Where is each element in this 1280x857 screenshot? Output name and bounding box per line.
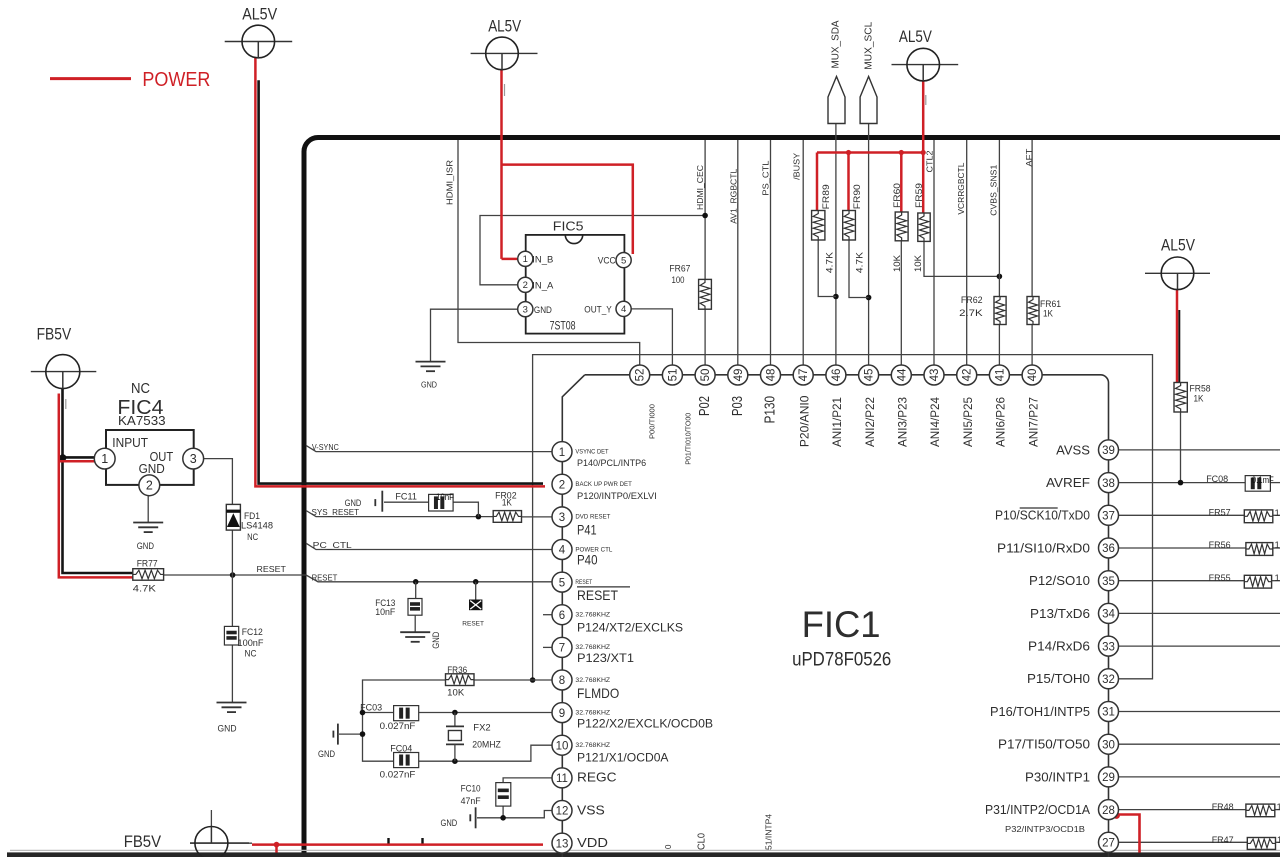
FIC1 pin 4 <box>552 540 613 568</box>
svg-text:PS_CTL: PS_CTL <box>761 160 771 195</box>
FIC1 pin 28 <box>985 800 1119 820</box>
FIC1 pin 31 <box>990 702 1119 722</box>
svg-text:P03: P03 <box>729 396 746 416</box>
power wire red FB5V VDD rail <box>252 845 543 853</box>
svg-text:FC08: FC08 <box>1206 474 1228 485</box>
svg-text:FC10: FC10 <box>461 783 481 794</box>
junction FX2 bottom <box>452 758 458 764</box>
resistor FR60 10K <box>892 183 908 272</box>
svg-text:FR55: FR55 <box>1209 573 1231 584</box>
FIC1 pin 47 <box>793 365 813 385</box>
wire FIC4 pin2 to GND <box>147 496 149 523</box>
svg-text:52: 52 <box>635 369 647 382</box>
net label VCRRGBCTL <box>956 162 966 214</box>
net label AV1_RGBCTL <box>729 169 739 224</box>
svg-text:P01/TI010/TO00: P01/TI010/TO00 <box>683 413 692 465</box>
svg-text:VSS: VSS <box>577 802 605 817</box>
wire pin 28 to FR48 <box>1119 809 1280 811</box>
svg-text:FR36: FR36 <box>447 665 467 676</box>
ground FC12 <box>217 703 247 735</box>
resistor FR90 4.7K <box>843 184 865 273</box>
wire VCRRGBCTL pin 42 <box>966 140 968 365</box>
net label HDMI_ISR <box>445 160 455 205</box>
svg-text:FR47: FR47 <box>1212 835 1234 846</box>
FIC1 pin 44 <box>891 365 911 385</box>
svg-text:FC04: FC04 <box>390 743 412 754</box>
svg-text:P120/INTP0/EXLVI: P120/INTP0/EXLVI <box>577 491 657 502</box>
svg-text:SYS_RESET: SYS_RESET <box>312 507 360 517</box>
svg-text:10nF: 10nF <box>436 492 454 502</box>
svg-text:P130: P130 <box>762 396 779 424</box>
svg-text:FR59: FR59 <box>914 183 924 208</box>
FIC1 pin 11 <box>552 768 617 788</box>
wire FR60 to pin 44 <box>900 241 902 365</box>
wire FC12 to GND <box>231 645 233 703</box>
power symbol FB5V #1 <box>31 325 97 388</box>
FIC4 pin 2 <box>139 475 160 496</box>
FIC1 pin 8 <box>552 670 619 701</box>
wire pin 7 stub <box>543 646 552 648</box>
resistor FR57 <box>1209 507 1280 522</box>
svg-text:32.768KHZ: 32.768KHZ <box>575 709 610 716</box>
FIC1 pin 51 <box>662 365 682 385</box>
svg-text:AFT: AFT <box>1024 149 1034 167</box>
svg-text:47: 47 <box>798 369 810 382</box>
wire PS_CTL pin 48 <box>770 140 772 365</box>
resistor FR62 2.7K <box>959 295 1006 325</box>
wire MUX_SCL to pin 45 <box>868 124 870 366</box>
svg-text:37: 37 <box>1102 511 1115 523</box>
wire RESET from FR77 to border <box>164 574 306 576</box>
resistor FR36 10K <box>446 665 475 699</box>
svg-text:FR67: FR67 <box>669 263 690 274</box>
net label RESET at border <box>312 572 338 582</box>
ground FC13 <box>400 582 441 649</box>
legend POWER <box>50 68 210 91</box>
svg-text:1K: 1K <box>1043 308 1054 319</box>
wire pin 31 <box>1119 711 1280 713</box>
wire GND tap crystal <box>339 733 363 735</box>
svg-text:P15/TOH0: P15/TOH0 <box>1027 672 1090 686</box>
ground crystal bracket <box>318 724 338 759</box>
net label RESET left <box>257 564 286 574</box>
wire CTL2 pin 43 <box>933 140 935 365</box>
svg-text:CL0: CL0 <box>697 833 708 850</box>
svg-text:P123/XT1: P123/XT1 <box>577 651 634 665</box>
svg-text:AV1_RGBCTL: AV1_RGBCTL <box>729 169 739 224</box>
wire FC11 to SYS_RESET <box>384 502 478 516</box>
svg-text:MUX_SCL: MUX_SCL <box>864 21 875 69</box>
svg-text:32.768KHZ: 32.768KHZ <box>575 677 610 684</box>
pin label ANI1/P21 <box>830 397 844 447</box>
svg-text:P13/TxD6: P13/TxD6 <box>1030 607 1090 621</box>
svg-text:32: 32 <box>1102 674 1115 686</box>
svg-text:REGC: REGC <box>577 769 617 784</box>
ground FC10 bracket <box>441 807 476 828</box>
svg-text:39: 39 <box>1102 445 1115 457</box>
junction reset testpoint tap <box>473 579 479 585</box>
svg-text:uPD78F0526: uPD78F0526 <box>792 649 891 670</box>
wire HDMI_CEC vertical / FR67 to pin 50 <box>704 140 706 365</box>
pin label P01/TI010/TO00 <box>683 413 692 465</box>
FIC1 pin 46 <box>826 365 846 385</box>
FIC1 pin 52 <box>630 365 650 385</box>
pin label ANI5/P25 <box>961 397 975 447</box>
FIC1 pin 5 <box>552 572 630 603</box>
svg-text:FR90: FR90 <box>852 184 862 209</box>
junction FB5V <box>59 454 66 461</box>
svg-text:P14/RxD6: P14/RxD6 <box>1028 640 1090 654</box>
FIC1 pin 1 <box>552 442 646 469</box>
svg-text:1: 1 <box>523 254 528 265</box>
svg-text:30: 30 <box>1102 739 1115 751</box>
junction CVBS_SNS1 <box>997 274 1003 280</box>
FIC1 pin 13 <box>552 833 608 853</box>
FIC5 pin 1 IN_B <box>518 251 554 266</box>
svg-text:43: 43 <box>929 369 941 382</box>
wire FC04 row to pin 10 <box>419 745 552 761</box>
svg-text:PC_CTL: PC_CTL <box>313 540 352 550</box>
wire stub tick 1 <box>387 838 389 846</box>
svg-text:POWER: POWER <box>142 68 210 91</box>
svg-text:3: 3 <box>559 512 565 524</box>
svg-text:ANI1/P21: ANI1/P21 <box>830 397 844 447</box>
svg-text:45: 45 <box>864 369 876 382</box>
svg-text:ANI5/P25: ANI5/P25 <box>961 397 975 447</box>
svg-text:12: 12 <box>556 806 569 818</box>
FIC1 pin 12 <box>552 801 605 821</box>
svg-text:VCC: VCC <box>598 256 616 267</box>
diode FD1 LS4148 <box>226 504 273 543</box>
svg-text:/BUSY: /BUSY <box>792 153 802 180</box>
svg-text:HDMI_CEC: HDMI_CEC <box>695 165 705 210</box>
svg-text:AL5V: AL5V <box>1161 237 1195 255</box>
svg-text:ANI4/P24: ANI4/P24 <box>928 397 942 447</box>
ground FC11 bracket <box>345 491 383 512</box>
capacitor FC03 0.027nF <box>360 702 419 732</box>
svg-text:GND: GND <box>345 498 362 508</box>
svg-text:ANI2/P22: ANI2/P22 <box>863 397 877 447</box>
wire PC_CTL to pin 4 <box>306 543 552 549</box>
power wire red AL5V#3 / pullup bus <box>817 81 923 213</box>
svg-text:100: 100 <box>672 275 685 286</box>
svg-text:RESET: RESET <box>577 587 618 603</box>
FIC1 pin 45 <box>859 365 879 385</box>
wire FD1 to FC12 <box>231 530 233 626</box>
power wire red FB5V#1 <box>59 394 133 578</box>
FIC5 pin 5 VCC <box>598 253 632 268</box>
wire FR36 left loop <box>363 680 446 761</box>
svg-text:1: 1 <box>1275 573 1280 584</box>
svg-text:10K: 10K <box>913 255 923 272</box>
power wire black FB5V to FIC4/FR77 <box>63 389 134 573</box>
overline SCK10 <box>1020 507 1058 509</box>
svg-text:GND: GND <box>441 818 458 828</box>
FIC1 pin 3 <box>552 507 610 538</box>
svg-text:AL5V: AL5V <box>899 28 932 46</box>
svg-text:32.768KHZ: 32.768KHZ <box>575 644 610 651</box>
capacitor FC12 100nF <box>224 626 263 659</box>
junction FR89/pin46 <box>833 294 839 300</box>
pin label ANI3/P23 <box>896 397 910 447</box>
wire AV1_RGBCTL pin 49 <box>737 140 739 365</box>
wire MUX_SDA to pin 46 <box>835 124 837 366</box>
svg-text:3: 3 <box>523 304 528 315</box>
svg-text:13: 13 <box>556 838 569 850</box>
wire FIC5 GND pin3 <box>431 309 519 361</box>
testpoint RESET switch <box>462 582 484 628</box>
svg-text:42: 42 <box>962 369 974 382</box>
FIC1 pin 39 <box>1056 440 1118 460</box>
wire SYS_RESET to FR02 <box>306 511 493 517</box>
svg-text:VSYNC DET: VSYNC DET <box>575 448 608 455</box>
svg-text:KA7533: KA7533 <box>118 414 166 428</box>
IC FIC1 body outline <box>562 375 1108 857</box>
resistor FR47 <box>1212 835 1280 849</box>
FIC4 pin 3 <box>183 448 204 469</box>
wire FLMDO net pin 8 to pin 32 <box>533 355 1153 680</box>
svg-text:LS4148: LS4148 <box>241 521 273 532</box>
wire stub tick 2 <box>421 838 423 846</box>
svg-text:P20/ANI0: P20/ANI0 <box>797 395 811 447</box>
svg-text:FC11: FC11 <box>395 491 417 502</box>
svg-text:P140/PCL/INTP6: P140/PCL/INTP6 <box>577 458 646 469</box>
svg-text:IN_A: IN_A <box>532 281 554 292</box>
svg-text:4.7K: 4.7K <box>855 252 865 273</box>
FIC5 pin 4 OUT_Y <box>584 301 631 316</box>
wire AFT / FR61 pin 40 <box>1031 140 1033 365</box>
wire FIC5 OUT_Y to pin 51 <box>631 309 672 365</box>
FIC1 pin 49 <box>728 365 748 385</box>
svg-text:P16/TOH1/INTP5: P16/TOH1/INTP5 <box>990 705 1090 719</box>
svg-text:10: 10 <box>556 740 569 752</box>
FIC1 pin 29 <box>1025 767 1119 787</box>
junction FR90/pin45 <box>866 295 872 301</box>
resistor FR89 4.7K <box>812 184 835 273</box>
wire pin 29 <box>1119 776 1280 778</box>
svg-text:P124/XT2/EXCLKS: P124/XT2/EXCLKS <box>577 620 683 634</box>
crystal FX2 20MHZ <box>446 713 501 762</box>
wire pin 27 to FR47 <box>1119 841 1280 843</box>
resistor FR77 4.7K <box>133 559 164 595</box>
FIC1 pin 40 <box>1022 365 1042 385</box>
power wire red AL5V#4 to FR58 <box>1176 289 1179 383</box>
pin label P00/TI000 <box>648 404 657 439</box>
svg-text:1: 1 <box>101 452 108 466</box>
svg-text:4.7K: 4.7K <box>825 252 835 273</box>
FIC5 pin 2 IN_A <box>518 277 554 292</box>
svg-text:34: 34 <box>1102 609 1115 621</box>
FIC1 block boundary border <box>304 138 1280 857</box>
wire tick AL5V#2 <box>504 84 506 96</box>
svg-text:AL5V: AL5V <box>488 18 521 36</box>
wire pin 34 <box>1119 612 1280 614</box>
svg-text:GND: GND <box>318 749 335 759</box>
svg-text:AVREF: AVREF <box>1046 476 1090 490</box>
svg-text:FR57: FR57 <box>1209 507 1231 518</box>
junction FD1/RESET <box>230 572 236 578</box>
FIC1 pin 36 <box>997 538 1119 558</box>
svg-text:1K: 1K <box>502 498 513 509</box>
svg-text:38: 38 <box>1102 478 1115 490</box>
wire FR59 bottom to CVBS_SNS1 <box>924 241 999 276</box>
pin label SCL0 partial <box>697 833 708 850</box>
junction FC03 left <box>360 710 366 716</box>
junction red pin 28 <box>1113 812 1120 819</box>
pin label partial 0 <box>664 844 673 849</box>
capacitor FC13 10nF <box>375 598 422 618</box>
wire V-SYNC to pin 1 <box>306 445 552 451</box>
pin label P20/ANI0 <box>797 395 811 447</box>
svg-text:4: 4 <box>621 304 626 315</box>
svg-text:P17/TI50/TO50: P17/TI50/TO50 <box>998 738 1090 752</box>
FIC1 pin 43 <box>924 365 944 385</box>
power symbol AL5V #1 <box>225 6 293 58</box>
power wire black AL5V to pin 2 <box>259 80 543 483</box>
svg-text:32.768KHZ: 32.768KHZ <box>575 742 610 749</box>
svg-text:1: 1 <box>1277 802 1280 813</box>
wire AVREF pin 38 to FC08 <box>1119 482 1280 484</box>
resistor FR56 <box>1209 540 1280 555</box>
svg-text:P00/TI000: P00/TI000 <box>648 404 657 439</box>
svg-text:6: 6 <box>559 610 565 622</box>
capacitor FC08 0.1mF <box>1206 474 1274 491</box>
wire tick AL5V#3 <box>925 95 927 105</box>
junction HDMI_CEC <box>702 213 708 219</box>
svg-text:FIC5: FIC5 <box>553 219 584 234</box>
svg-text:1: 1 <box>1275 540 1280 551</box>
svg-text:2: 2 <box>559 479 565 491</box>
pin label ANI2/P22 <box>863 397 877 447</box>
svg-text:5: 5 <box>559 577 565 589</box>
svg-text:0.1mF: 0.1mF <box>1252 475 1274 485</box>
pin label ANI4/P24 <box>928 397 942 447</box>
svg-text:NC: NC <box>247 532 258 543</box>
wire pin 33 <box>1119 645 1280 647</box>
svg-text:FR56: FR56 <box>1209 540 1231 551</box>
wire pin 36 to FR56 <box>1119 547 1280 549</box>
power wire red AL5V#2 to FIC5 VCC <box>502 70 633 259</box>
ground FIC4 pin2 <box>133 523 163 552</box>
power symbol FB5V #2 bottom <box>124 827 249 857</box>
wire FIC4 pin3 to FD1 <box>204 459 233 505</box>
svg-text:P02: P02 <box>696 396 713 416</box>
FIC1 pin 27 <box>1099 832 1119 852</box>
wire FR89 bottom <box>818 240 836 297</box>
svg-text:49: 49 <box>733 369 745 382</box>
wire FR02 to pin 3 <box>522 516 553 518</box>
power symbol AL5V #4 <box>1145 237 1210 290</box>
svg-text:INPUT: INPUT <box>112 435 148 450</box>
FIC1 pin 10 <box>552 735 669 765</box>
svg-text:CTL2: CTL2 <box>925 150 935 172</box>
wire HDMI_ISR to pin 52 <box>458 140 640 365</box>
svg-text:P121/X1/OCD0A: P121/X1/OCD0A <box>577 751 669 765</box>
svg-text:VCRRGBCTL: VCRRGBCTL <box>956 162 966 214</box>
IC FIC4 KA7533 body <box>106 380 194 485</box>
svg-text:VDD: VDD <box>577 835 608 850</box>
svg-text:10K: 10K <box>447 687 465 698</box>
svg-text:P31/INTP2/OCD1A: P31/INTP2/OCD1A <box>985 803 1091 817</box>
port arrow MUX_SCL <box>860 21 877 123</box>
pin label P130 <box>762 396 779 424</box>
resistor FR67 100 <box>669 263 711 309</box>
wire FR58 to AVREF <box>1180 412 1182 483</box>
junction red bus AL5V <box>921 150 926 155</box>
wire pin 35 to FR55 <box>1119 580 1280 582</box>
svg-text:MUX_SDA: MUX_SDA <box>831 20 842 68</box>
svg-text:31: 31 <box>1102 707 1115 719</box>
FIC5 pin 3 GND <box>518 302 552 317</box>
FIC1 pin 2 <box>552 474 657 502</box>
svg-text:RESET: RESET <box>462 620 484 627</box>
junction FX2 top <box>452 710 458 716</box>
resistor FR61 1K <box>1027 297 1061 325</box>
svg-text:DVD RESET: DVD RESET <box>575 514 610 521</box>
FIC1 pin 50 <box>695 365 715 385</box>
svg-text:29: 29 <box>1102 772 1115 784</box>
svg-text:FR62: FR62 <box>961 295 983 306</box>
FIC1 pin 35 <box>1029 571 1119 591</box>
svg-text:8: 8 <box>559 675 565 687</box>
wire AVSS pin 39 <box>1119 449 1280 451</box>
FIC1 pin 34 <box>1030 603 1119 623</box>
svg-text:FR89: FR89 <box>821 184 831 209</box>
junction red bus FR90 <box>846 150 851 155</box>
svg-text:GND: GND <box>534 305 552 316</box>
svg-text:7ST08: 7ST08 <box>550 321 576 333</box>
svg-text:2.7K: 2.7K <box>959 308 983 319</box>
svg-text:BACK UP PWR DET: BACK UP PWR DET <box>575 481 631 488</box>
junction FC10 gnd <box>500 815 506 821</box>
capacitor FC11 10nF <box>395 491 454 511</box>
svg-text:V-SYNC: V-SYNC <box>312 442 339 452</box>
FIC1 pin 9 <box>552 703 713 731</box>
svg-text:NC: NC <box>131 380 150 397</box>
svg-text:10nF: 10nF <box>375 607 395 618</box>
net label AFT <box>1024 149 1034 167</box>
FIC1 pin 6 <box>552 605 683 635</box>
svg-text:2: 2 <box>523 280 528 291</box>
svg-text:11: 11 <box>556 773 568 785</box>
resistor FR48 <box>1212 802 1280 817</box>
svg-text:P30/INTP1: P30/INTP1 <box>1025 770 1090 784</box>
wire pin 30 <box>1119 743 1280 745</box>
svg-text:GND: GND <box>431 631 441 648</box>
wire CVBS_SNS1 / FR62 pin 41 <box>998 140 1000 365</box>
svg-text:28: 28 <box>1102 805 1115 817</box>
svg-text:GND: GND <box>421 380 437 390</box>
svg-text:FC12: FC12 <box>242 627 263 638</box>
wire tick FB5V <box>65 399 67 409</box>
FIC1 pin 32 <box>1027 669 1119 689</box>
svg-text:0.027nF: 0.027nF <box>380 721 416 732</box>
wire FR90 bottom <box>849 240 869 298</box>
svg-text:35: 35 <box>1102 576 1115 588</box>
svg-text:4.7K: 4.7K <box>133 584 157 595</box>
svg-text:46: 46 <box>831 369 843 382</box>
wire FC03 row to pin 9 <box>363 712 553 714</box>
junction FC13 tap <box>413 579 419 585</box>
svg-text:CVBS_SNS1: CVBS_SNS1 <box>989 164 999 215</box>
svg-text:47nF: 47nF <box>461 796 481 807</box>
wire FIC5 IN_A to HDMI_CEC net <box>480 216 705 285</box>
svg-text:FR48: FR48 <box>1212 802 1234 813</box>
svg-text:7: 7 <box>559 643 565 655</box>
power symbol AL5V #2 <box>471 18 538 70</box>
svg-text:RESET: RESET <box>257 564 286 574</box>
FIC1 pin 41 <box>989 365 1009 385</box>
